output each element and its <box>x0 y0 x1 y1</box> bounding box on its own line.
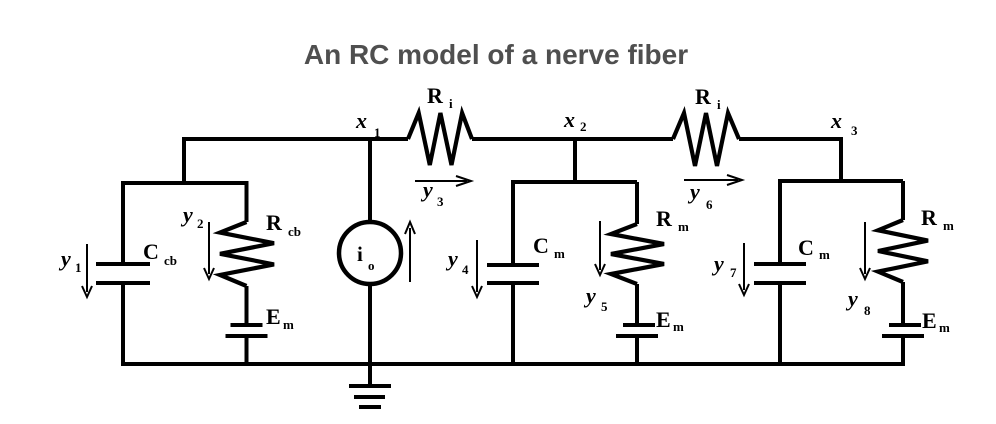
wire dropper node x2 to middle box <box>573 137 577 182</box>
wire right box left vertical lower <box>778 283 782 364</box>
svg-text:R: R <box>921 205 938 230</box>
wire battery to bottom rail (middle) <box>635 336 639 364</box>
current source i_o <box>339 222 401 284</box>
svg-text:cb: cb <box>164 253 177 268</box>
ground <box>368 364 372 386</box>
svg-text:R: R <box>656 206 673 231</box>
resistor R_cb <box>220 222 274 286</box>
arrow y7 <box>743 243 745 290</box>
arrow y2 <box>208 222 210 274</box>
svg-text:o: o <box>368 258 375 273</box>
svg-text:x: x <box>355 108 367 133</box>
svg-text:m: m <box>943 218 954 233</box>
wire middle box left vertical lower <box>511 283 515 364</box>
wire dropper node x3 to right box <box>839 137 843 181</box>
capacitor C_cb <box>96 262 150 266</box>
svg-text:m: m <box>283 317 294 332</box>
arrow y8 <box>864 222 866 274</box>
svg-text:C: C <box>798 235 814 260</box>
svg-text:6: 6 <box>706 197 713 212</box>
capacitor C_m (middle) <box>487 263 539 267</box>
svg-text:7: 7 <box>730 265 737 280</box>
svg-text:1: 1 <box>75 260 82 275</box>
wire middle box left vertical upper <box>511 180 515 265</box>
arrow y6 <box>684 179 738 181</box>
wire dropper x1 to current source <box>368 139 372 223</box>
svg-text:C: C <box>143 239 159 264</box>
svg-text:m: m <box>678 219 689 234</box>
svg-text:1: 1 <box>374 125 381 140</box>
svg-text:m: m <box>939 320 950 335</box>
svg-text:i: i <box>449 96 453 111</box>
arrow y4 <box>476 240 478 292</box>
wire R_m to battery (right) <box>901 282 905 325</box>
resistor R_m (right) <box>878 220 928 282</box>
wire right box top <box>778 179 903 183</box>
svg-text:i: i <box>717 97 721 112</box>
arrow y3 <box>415 180 467 182</box>
wire middle box top <box>511 180 637 184</box>
svg-text:i: i <box>357 242 363 266</box>
svg-text:R: R <box>427 83 444 108</box>
svg-text:4: 4 <box>462 262 469 277</box>
wire left box left vertical upper <box>121 181 125 264</box>
wire top rail right segment <box>739 137 841 141</box>
wire left box right vertical upper <box>245 181 249 222</box>
wire bottom rail <box>121 362 905 366</box>
arrow current source <box>409 228 411 282</box>
wire left box left vertical lower <box>121 283 125 364</box>
svg-text:x: x <box>830 108 842 133</box>
wire battery to bottom rail (right) <box>901 336 905 364</box>
resistor R_m (middle) <box>611 224 664 284</box>
svg-text:E: E <box>266 304 281 329</box>
battery E_m (right) <box>889 323 921 327</box>
wire right box right vertical upper <box>901 181 905 220</box>
arrow y1 <box>86 244 88 292</box>
svg-text:m: m <box>673 319 684 334</box>
svg-text:E: E <box>656 307 671 332</box>
svg-text:R: R <box>695 84 712 109</box>
svg-text:cb: cb <box>288 224 301 239</box>
svg-text:C: C <box>533 233 549 258</box>
wire dropper node x1 to left box <box>182 137 186 183</box>
svg-text:An RC model of a nerve fiber: An RC model of a nerve fiber <box>304 39 688 70</box>
svg-text:2: 2 <box>197 216 204 231</box>
capacitor C_m (right) <box>754 262 806 266</box>
wire top rail middle segment <box>472 137 673 141</box>
svg-text:m: m <box>819 247 830 262</box>
svg-text:x: x <box>563 107 575 132</box>
resistor R_i (left) <box>408 113 472 165</box>
svg-text:3: 3 <box>851 123 858 138</box>
arrow y5 <box>599 221 601 270</box>
svg-text:E: E <box>922 308 937 333</box>
svg-text:3: 3 <box>437 194 444 209</box>
resistor R_i (right) <box>673 113 739 166</box>
svg-text:8: 8 <box>864 303 871 318</box>
svg-text:2: 2 <box>580 119 587 134</box>
wire right box left vertical upper <box>778 179 782 264</box>
wire R_cb to battery <box>245 286 249 325</box>
wire top rail left segment <box>182 137 408 141</box>
wire battery to bottom rail <box>245 336 249 364</box>
wire R_m to battery (middle) <box>635 284 639 325</box>
svg-text:m: m <box>554 246 565 261</box>
battery E_m (left) <box>231 323 263 327</box>
battery E_m (middle) <box>623 323 655 327</box>
svg-text:5: 5 <box>601 299 608 314</box>
wire left box top <box>121 181 248 185</box>
svg-text:R: R <box>266 210 283 235</box>
wire current source to bottom rail <box>368 283 372 364</box>
wire middle box right vertical upper <box>635 182 639 224</box>
